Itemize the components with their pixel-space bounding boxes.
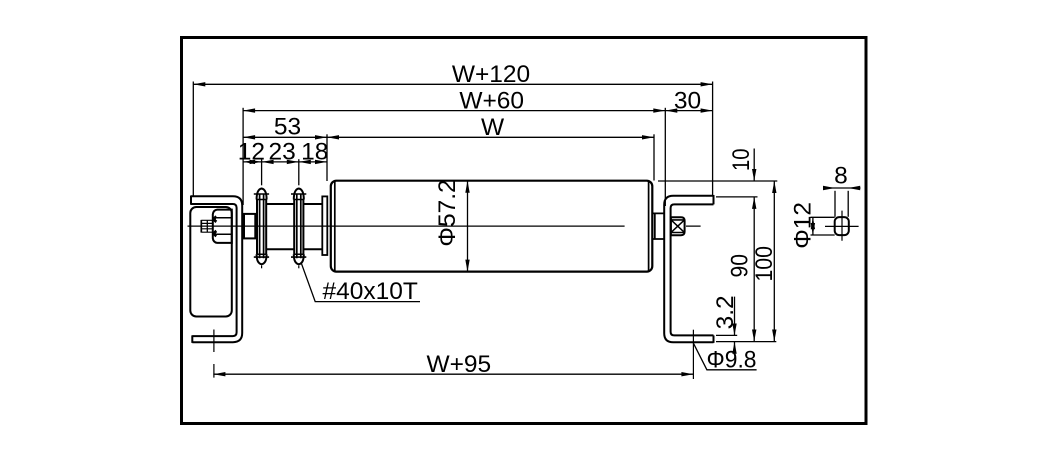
dim line W+95: [213, 373, 693, 375]
ext line web right outer: [664, 108, 666, 206]
ext line roller right: [653, 134, 655, 180]
hub between sprockets: [266, 204, 294, 249]
arrow W+95 right: [681, 372, 693, 376]
svg-text:12: 12: [238, 139, 265, 166]
detail hex bore shape: [835, 217, 849, 235]
sprocket S2 centerline below: [298, 265, 300, 268]
ext line roller left: [326, 134, 328, 181]
arrow W+60 right: [653, 108, 665, 112]
svg-text:W+60: W+60: [459, 87, 524, 114]
svg-text:3.2: 3.2: [712, 295, 739, 329]
dim line 100: [773, 181, 775, 342]
left hole centerline: [213, 330, 215, 378]
svg-text:W+120: W+120: [452, 61, 530, 88]
ext line flange top right: [716, 196, 758, 198]
svg-text:53: 53: [274, 114, 301, 141]
svg-text:W+95: W+95: [426, 351, 491, 378]
dim line 53 and W: [243, 136, 654, 138]
arrow 23 right: [287, 160, 299, 164]
spacer sleeve: [244, 214, 255, 239]
dim line phi57.2: [467, 181, 469, 272]
arrow phi57.2 up: [465, 181, 469, 193]
arrow 12 right: [250, 160, 262, 164]
svg-text:100: 100: [751, 246, 778, 282]
sprocket S2 body: [294, 200, 303, 255]
arrow 18 right: [315, 160, 327, 164]
drawing frame border: [182, 38, 867, 424]
arrow 12 left: [243, 160, 255, 164]
dim line 3.2: [734, 297, 736, 353]
svg-text:23: 23: [268, 139, 295, 166]
svg-text:8: 8: [834, 163, 848, 190]
sprocket S1 inner lines: [260, 194, 264, 258]
svg-text:90: 90: [726, 254, 753, 278]
svg-text:Φ9.8: Φ9.8: [707, 347, 757, 374]
detail crosshair: [825, 211, 859, 241]
arrow 3.2 up: [732, 342, 736, 354]
right bracket inner contour: [671, 204, 714, 335]
spring pin lines: [202, 220, 213, 232]
arrow W right: [642, 135, 654, 139]
ext line detail 8 right: [847, 191, 849, 217]
sprocket S1 body: [257, 200, 266, 255]
arrow phi12 up: [811, 217, 815, 229]
bearing cap: [322, 196, 327, 255]
left shaft stub lines: [242, 218, 244, 234]
right stub shaft: [653, 213, 664, 239]
ext line sprocket1 center: [261, 159, 263, 185]
svg-text:Φ57.2: Φ57.2: [434, 179, 461, 246]
left bracket inner contour: [191, 204, 237, 336]
main centerline: [188, 225, 701, 227]
leader phi9.8: [693, 343, 756, 370]
nut facet lines: [213, 218, 232, 235]
arrow 3.2 down: [732, 324, 736, 336]
ext line flange inner right: [716, 334, 737, 336]
sprocket S1 shoulders: [257, 200, 267, 255]
arrow 30 right: [701, 108, 713, 112]
ext line roller top right: [658, 180, 777, 182]
left bracket flange end caps: [191, 196, 192, 343]
dim line detail 8: [823, 187, 860, 189]
arrow 100 down: [772, 330, 776, 342]
arrow 8 right: [823, 186, 835, 190]
arrow 90 down: [752, 330, 756, 342]
svg-text:Φ12: Φ12: [790, 202, 817, 249]
dim line 90: [753, 197, 755, 342]
svg-text:30: 30: [674, 87, 701, 114]
sprocket S2 shoulders: [294, 200, 304, 255]
arrow W+95 left: [213, 372, 225, 376]
left bracket outer contour: [191, 196, 242, 342]
ext line W+60 left: [242, 108, 244, 205]
arrow 100 up: [772, 181, 776, 193]
sprocket S1 centerline below: [261, 265, 263, 268]
hub sprocket to bearing: [303, 204, 322, 249]
X-box inner lines: [671, 220, 685, 233]
sprocket S2 tooth domes: [294, 189, 304, 265]
svg-text:10: 10: [728, 148, 755, 171]
arrow 18 left: [299, 160, 311, 164]
ext line detail phi12 top: [811, 216, 835, 218]
arrow 53 right: [315, 135, 327, 139]
arrow 10 down: [752, 169, 756, 181]
X-box diagonals: [671, 220, 684, 232]
sprocket S1 tooth ticks: [254, 194, 269, 257]
sprocket S2 inner lines: [297, 194, 301, 258]
right hole centerline: [692, 330, 694, 379]
right bracket flange end caps: [713, 195, 715, 343]
right bracket outer contour: [664, 196, 713, 343]
svg-text:#40x10T: #40x10T: [323, 278, 418, 305]
arrow 30 left: [665, 108, 677, 112]
spring pin mid line: [206, 220, 208, 232]
svg-text:18: 18: [301, 139, 328, 166]
dim line detail phi12: [812, 217, 814, 235]
dim line W+120: [193, 83, 712, 85]
dim line 12 23 18: [243, 161, 327, 163]
arrow 90 up: [752, 197, 756, 209]
arrow phi57.2 down: [465, 260, 469, 272]
nut body: [213, 210, 232, 243]
nut chamfer arcs: [214, 217, 216, 237]
ext line detail phi12 bottom: [811, 234, 835, 236]
sprocket S2 tooth ticks: [291, 194, 306, 257]
roller tube: [331, 181, 653, 272]
arrow 23 left: [262, 160, 274, 164]
arrow W+120 left: [193, 82, 205, 86]
leader 40x10T: [301, 262, 420, 301]
roller end inner edges: [335, 181, 649, 271]
ext line flange bottom right: [716, 341, 776, 343]
dim line W+60 and 30: [243, 110, 712, 112]
svg-text:W: W: [481, 114, 505, 141]
dim line 10: [753, 149, 755, 182]
ext line sprocket2 center: [298, 159, 300, 185]
sprocket S1 tooth domes: [257, 189, 267, 265]
arrow phi12 down: [811, 223, 815, 235]
arrow 53 left: [243, 135, 255, 139]
ext line W+120 left: [192, 82, 194, 197]
spring pin end cap: [200, 220, 202, 233]
ext line W+120 right: [712, 82, 714, 197]
arrow W left: [327, 135, 339, 139]
arrow W+120 right: [701, 82, 713, 86]
arrow 8 left: [848, 186, 860, 190]
X-box shaft end: [671, 217, 685, 235]
left frame rail rounded plate: [190, 207, 232, 317]
ext line detail 8 left: [834, 191, 836, 217]
arrow W+60 left: [243, 108, 255, 112]
